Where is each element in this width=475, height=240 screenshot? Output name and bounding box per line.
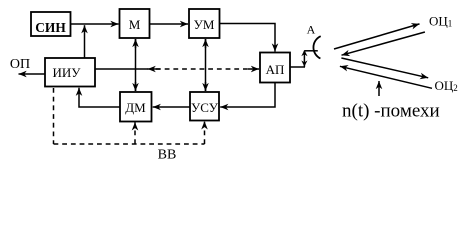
- wire IIU top up-arrow into SIN-M line: [84, 25, 86, 58]
- dashed VV branch to USU: [204, 121, 206, 144]
- svg-text:ОЦ2: ОЦ2: [435, 78, 458, 93]
- svg-text:ИИУ: ИИУ: [53, 65, 82, 80]
- box IIU (ИИУ): [45, 58, 95, 87]
- antenna feed double arrow: [301, 50, 318, 67]
- svg-text:ОЦ1: ОЦ1: [429, 14, 452, 29]
- beam to OC2 outgoing: [341, 58, 428, 78]
- svg-text:УМ: УМ: [194, 17, 215, 32]
- dashed VV horizontal: [54, 143, 205, 145]
- wire IIU solid lead to dashed link: [95, 68, 148, 70]
- wire USU to DM: [153, 106, 190, 108]
- svg-text:М: М: [129, 17, 141, 32]
- dashed link arrow into AP: [248, 68, 259, 70]
- noise arrow n(t): [378, 81, 380, 96]
- wire M-DM vertical double arrow: [135, 39, 137, 91]
- wire UM-USU vertical double arrow: [205, 39, 207, 91]
- wire AP to antenna: [290, 66, 305, 68]
- svg-text:А: А: [307, 23, 316, 37]
- wire AP to USU: [220, 83, 275, 108]
- dashed link IIU to AP: [156, 68, 252, 70]
- dashed VV vertical from IIU: [53, 88, 55, 144]
- box M (М modulator): [120, 9, 150, 38]
- svg-text:ВВ: ВВ: [158, 148, 177, 163]
- box SIN (СИН): [31, 12, 71, 36]
- svg-text:СИН: СИН: [35, 20, 66, 35]
- beam from OC1 return: [342, 32, 425, 55]
- wire M to UM: [150, 23, 189, 25]
- wire SIN to M: [71, 23, 119, 25]
- wire OP output arrow: [19, 73, 46, 75]
- dashed link arrow toward IIU: [148, 68, 160, 70]
- wire UM to AP: [220, 24, 276, 52]
- svg-text:УСУ: УСУ: [191, 100, 219, 115]
- box UM (УМ): [189, 9, 220, 38]
- dashed VV branch to DM: [134, 122, 136, 144]
- box DM (ДМ): [120, 92, 152, 122]
- svg-text:n(t) -помехи: n(t) -помехи: [342, 101, 440, 122]
- beam to OC1 outgoing: [334, 24, 420, 49]
- svg-text:ОП: ОП: [10, 57, 30, 72]
- svg-text:ДМ: ДМ: [125, 100, 146, 115]
- antenna A arc: [313, 36, 320, 58]
- wire DM to IIU bottom: [79, 88, 120, 107]
- box AP (АП): [260, 53, 290, 83]
- svg-text:АП: АП: [266, 62, 285, 77]
- box USU (УСУ): [190, 92, 219, 121]
- beam from OC2 return: [340, 66, 432, 88]
